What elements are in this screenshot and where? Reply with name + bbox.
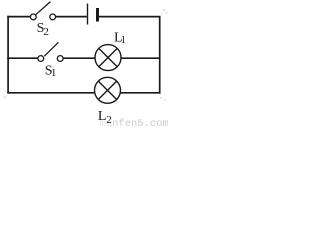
svg-text:L: L — [98, 109, 107, 124]
svg-text:1: 1 — [51, 67, 57, 79]
svg-text:nfen5.com: nfen5.com — [112, 118, 168, 128]
svg-text:2: 2 — [106, 114, 112, 126]
svg-text:1: 1 — [121, 34, 127, 46]
svg-text:2: 2 — [43, 26, 49, 38]
